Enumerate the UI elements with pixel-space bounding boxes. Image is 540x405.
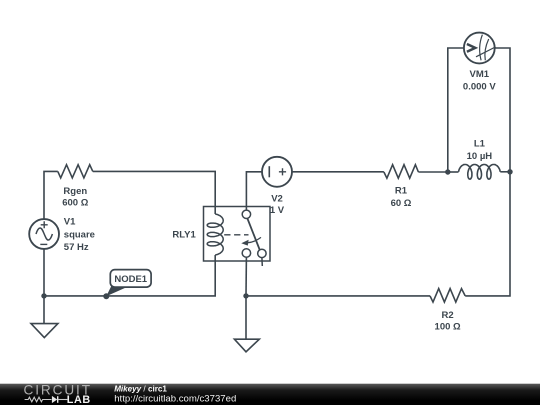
wire: V1 top to Rgen left [44,171,58,219]
svg-text:10 µH: 10 µH [467,151,493,162]
relay switch blade [247,218,260,250]
label VM1 0.000 V [463,69,496,93]
junction dot: node B (L1/VM1/R2) [507,169,512,174]
svg-text:R2: R2 [442,310,454,321]
footer bar [0,384,540,405]
label R2 100 ohm [435,310,461,333]
voltage source V1 [29,219,59,249]
svg-text:RLY1: RLY1 [172,229,196,240]
relay actuation dashed link [224,234,248,236]
label L1 10 uH [467,139,493,162]
svg-text:http://circuitlab.com/c3737ed: http://circuitlab.com/c3737ed [114,394,236,405]
svg-text:V2: V2 [271,194,283,205]
svg-text:LAB: LAB [67,394,91,405]
logo diode [52,396,57,403]
label V1 square 57 Hz [64,217,95,253]
svg-text:100 Ω: 100 Ω [435,322,461,333]
label Rgen 600 ohm [62,186,88,209]
wire: V2 left lead down to relay switch pole [246,172,262,210]
wire: VM1 left lead down to node A [448,48,464,172]
junction dot: node A (R1/L1/VM1) [445,169,450,174]
voltage source V2 [262,157,292,187]
relay switch terminals [242,210,250,218]
svg-text:L1: L1 [474,139,486,150]
junction dot: NODE1 [103,293,109,299]
svg-text:VM1: VM1 [470,69,490,80]
svg-text:60 Ω: 60 Ω [391,198,412,209]
svg-text:R1: R1 [395,185,408,196]
wire: VM1 right lead down to R2 right corner [465,48,510,296]
svg-text:square: square [64,229,95,240]
label R1 60 ohm [391,185,412,209]
wire: Rgen right to relay coil top [93,171,215,214]
junction dot: switch common/ground [243,293,248,298]
resistor Rgen [58,165,93,178]
ground G1 [31,324,58,338]
relay RLY1 box [204,207,271,262]
svg-text:NODE1: NODE1 [114,274,147,285]
svg-text:57 Hz: 57 Hz [64,242,89,253]
logo resistor zigzag [25,397,52,402]
svg-text:Rgen: Rgen [63,186,87,197]
wire: V2 right to R1 left [292,171,384,173]
svg-text:600 Ω: 600 Ω [62,197,88,208]
wire: bottom-left net (relay coil bottom, NODE1, V1) [44,255,215,296]
wire: ground G2 stub [245,296,247,339]
svg-text:1 V: 1 V [270,205,285,216]
wire: relay switch common down to node [245,257,247,296]
relay RLY1 coil [207,214,223,255]
svg-text:Mikeyy / circ1: Mikeyy / circ1 [114,384,167,393]
voltmeter VM1 [464,33,496,64]
relay actuation arrow [247,237,262,243]
wire: ground G1 stub [43,296,45,324]
resistor R1 [384,165,419,179]
relay NC contact stub [261,258,263,266]
wire: L1 right to node B [500,171,510,173]
node flag NODE1 pointer [106,286,126,297]
label V2 1 V [270,194,285,217]
resistor R2 [430,289,465,303]
wire: node A to L1 left [448,171,459,173]
svg-text:V1: V1 [64,217,76,228]
wire: V1 bottom to ground node [43,249,45,296]
svg-text:0.000 V: 0.000 V [463,82,496,93]
wire: R1 right to node A [418,171,447,173]
ground G2 [234,339,259,352]
junction dot: V1/ground [41,293,46,298]
inductor L1 [459,165,501,180]
node flag NODE1 box [110,270,151,288]
wire: switch common node to R2 left [246,295,430,297]
